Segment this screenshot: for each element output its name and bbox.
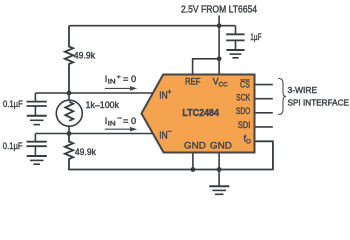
svg-text:GND: GND	[184, 141, 206, 152]
svg-text:0.1µF: 0.1µF	[3, 141, 23, 151]
svg-text:REF: REF	[185, 77, 201, 87]
svg-text:2.5V FROM LT6654: 2.5V FROM LT6654	[181, 5, 257, 16]
svg-text:SCK: SCK	[236, 92, 250, 102]
svg-text:+: +	[117, 74, 121, 81]
svg-text:SDI: SDI	[238, 120, 250, 130]
svg-text:GND: GND	[210, 141, 232, 152]
svg-text:IN: IN	[159, 130, 167, 141]
svg-text:1k–100k: 1k–100k	[86, 100, 120, 110]
svg-text:49.9k: 49.9k	[74, 51, 96, 61]
svg-text:3-WIRE: 3-WIRE	[288, 86, 318, 95]
svg-text:+: +	[167, 89, 171, 96]
svg-text:= 0: = 0	[123, 116, 136, 126]
svg-text:–: –	[168, 128, 172, 135]
svg-text:CS: CS	[240, 79, 250, 89]
svg-text:IN: IN	[108, 79, 116, 86]
svg-text:0.1µF: 0.1µF	[3, 99, 23, 109]
svg-text:SDO: SDO	[236, 106, 251, 116]
svg-text:SPI INTERFACE: SPI INTERFACE	[288, 99, 350, 108]
svg-text:= 0: = 0	[123, 74, 136, 84]
svg-text:49.9k: 49.9k	[75, 147, 96, 157]
svg-text:LTC2484: LTC2484	[182, 108, 219, 119]
svg-text:1µF: 1µF	[250, 32, 261, 42]
svg-text:IN: IN	[108, 121, 116, 128]
